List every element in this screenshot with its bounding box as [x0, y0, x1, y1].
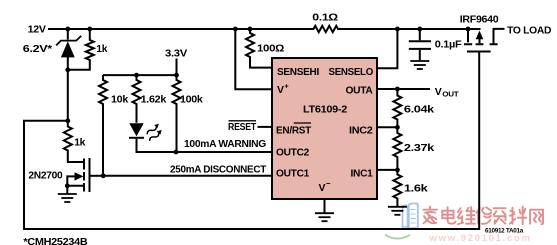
- svg-text:1k: 1k: [96, 43, 107, 55]
- svg-text:V: V: [435, 86, 442, 98]
- svg-text:V: V: [319, 182, 326, 194]
- svg-text:1.6k: 1.6k: [404, 183, 428, 195]
- svg-text:OUTA: OUTA: [346, 85, 374, 97]
- svg-text:250mA DISCONNECT: 250mA DISCONNECT: [170, 164, 267, 176]
- svg-text:+: +: [285, 84, 289, 91]
- svg-text:10k: 10k: [111, 94, 128, 106]
- svg-text:2.37k: 2.37k: [404, 142, 435, 154]
- svg-text:12V: 12V: [28, 24, 46, 36]
- svg-text:1k: 1k: [74, 137, 85, 149]
- svg-text:OUTC2: OUTC2: [276, 147, 309, 159]
- svg-text:100k: 100k: [180, 94, 203, 106]
- svg-text:6.2V*: 6.2V*: [23, 43, 53, 55]
- svg-text:610912 TA01a: 610912 TA01a: [485, 228, 524, 235]
- svg-text:0.1µF: 0.1µF: [435, 39, 462, 51]
- svg-text:TO LOAD: TO LOAD: [507, 25, 552, 37]
- svg-text:0.1Ω: 0.1Ω: [312, 12, 338, 24]
- svg-text:1.62k: 1.62k: [141, 94, 167, 106]
- svg-text:INC1: INC1: [351, 167, 373, 179]
- svg-text:3.3V: 3.3V: [165, 48, 187, 60]
- svg-text:OUT: OUT: [442, 92, 459, 99]
- svg-text:RESET: RESET: [228, 121, 257, 133]
- svg-text:2N2700: 2N2700: [28, 170, 62, 182]
- svg-text:6.04k: 6.04k: [404, 104, 435, 116]
- svg-text:SENSELO: SENSELO: [329, 66, 374, 78]
- svg-text:V: V: [277, 84, 284, 96]
- svg-text:−: −: [326, 179, 331, 188]
- svg-text:EN/RST: EN/RST: [276, 124, 312, 136]
- svg-text:*CMH25234B: *CMH25234B: [23, 236, 88, 245]
- svg-text:OUTC1: OUTC1: [276, 168, 309, 180]
- svg-text:IRF9640: IRF9640: [460, 14, 499, 26]
- svg-text:SENSEHI: SENSEHI: [277, 66, 319, 78]
- svg-text:www.920101.com: www.920101.com: [429, 233, 532, 244]
- svg-text:INC2: INC2: [349, 124, 373, 136]
- svg-text:100mA WARNING: 100mA WARNING: [184, 138, 266, 150]
- svg-text:LT6109-2: LT6109-2: [303, 104, 347, 116]
- svg-text:100Ω: 100Ω: [257, 43, 284, 55]
